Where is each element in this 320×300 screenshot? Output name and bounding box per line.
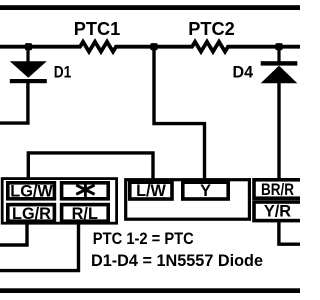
svg-text:R/L: R/L xyxy=(72,205,98,223)
svg-text:D1: D1 xyxy=(54,62,72,81)
svg-text:LG/R: LG/R xyxy=(12,205,51,223)
svg-text:D4: D4 xyxy=(233,63,254,82)
svg-text:PTC 1-2 = PTC: PTC 1-2 = PTC xyxy=(93,229,194,248)
svg-text:D1-D4 = 1N5557 Diode: D1-D4 = 1N5557 Diode xyxy=(91,251,263,270)
svg-text:PTC2: PTC2 xyxy=(188,19,235,39)
svg-text:LG/W: LG/W xyxy=(10,182,53,200)
svg-text:Y: Y xyxy=(200,182,211,200)
svg-text:BR/R: BR/R xyxy=(261,181,294,199)
svg-text:Y/R: Y/R xyxy=(264,203,291,221)
svg-text:PTC1: PTC1 xyxy=(74,19,121,39)
svg-text:L/W: L/W xyxy=(136,182,166,200)
